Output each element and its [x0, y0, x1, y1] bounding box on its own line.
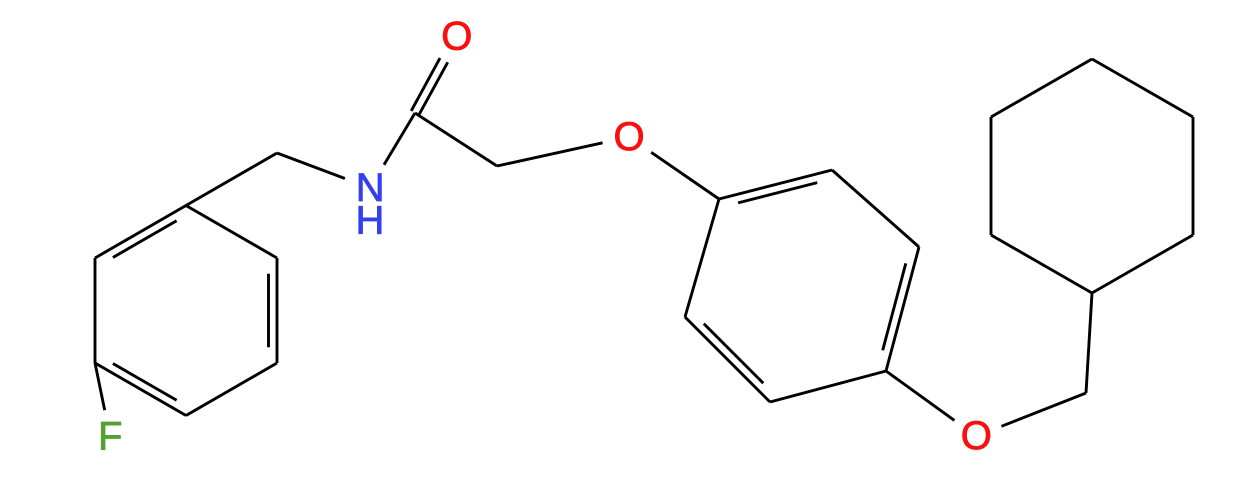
bond C-CH2 [415, 113, 497, 166]
svg-text:O: O [613, 115, 644, 159]
svg-text:O: O [441, 15, 472, 59]
bond O-CH2 [1001, 393, 1086, 426]
hex2 edge [1192, 117, 1195, 235]
ring1 edge C2-C3 [832, 170, 919, 247]
bond C-F [95, 363, 105, 410]
hex2 edge [991, 59, 1092, 117]
ring3 edge NW-T double [95, 206, 186, 259]
bond CH2-O [497, 143, 603, 166]
svg-text:O: O [961, 414, 992, 458]
carbonyl C=O [411, 58, 440, 111]
hex2 edge [1092, 59, 1193, 117]
ring3 edge NE-SE double [276, 258, 279, 363]
hex2 edge [990, 117, 993, 235]
ring3 edge SE-B [186, 363, 277, 416]
ring1 edge C5-C6 double [685, 317, 770, 402]
bond O-ring1 [651, 152, 719, 199]
ring1 edge C4-C5 [770, 371, 886, 402]
bond CH2-hex2 [1086, 293, 1092, 393]
ring1 edge C6-C1 [685, 199, 719, 317]
ring3 edge SW-NW [94, 258, 97, 363]
hex2 edge [1092, 235, 1193, 293]
svg-text:F: F [98, 415, 122, 459]
bond CH2-N [277, 153, 345, 179]
hex2 edge [991, 235, 1092, 293]
ring3 edge T-NE [186, 206, 277, 259]
ring1 edge C1-C2 double [719, 170, 832, 199]
ring3 edge B-SW double [95, 363, 186, 416]
bond N-C(=O) [384, 113, 415, 165]
svg-text:H: H [356, 199, 385, 243]
ring1 edge C3-C4 double [886, 247, 919, 371]
bond ring1-O [886, 371, 954, 420]
bond ring3-CH2 [186, 153, 277, 206]
